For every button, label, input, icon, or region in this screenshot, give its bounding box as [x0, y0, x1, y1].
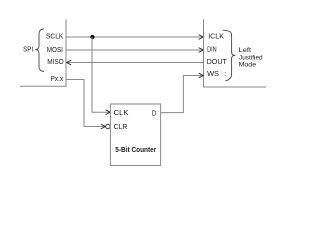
wire Px.x to counter CLR — [66, 80, 105, 127]
MCU block (left, partial: right edge + bottom edge) — [20, 20, 66, 87]
svg-text:Justified: Justified — [239, 54, 263, 61]
counter U1 block — [110, 104, 160, 165]
svg-text:Px.x: Px.x — [51, 74, 64, 83]
svg-text:D: D — [152, 109, 157, 118]
svg-text:ICLK: ICLK — [208, 32, 224, 41]
wire MOSI to DIN — [66, 49, 203, 51]
svg-text:Mode: Mode — [239, 61, 257, 68]
wire SCLK branch down to counter CLK — [92, 37, 110, 112]
junction dot on SCLK — [90, 35, 94, 39]
svg-text:WS: WS — [207, 69, 219, 78]
arrowhead into WS — [199, 73, 204, 78]
codec block (right, partial: left edge + bottom edge) — [204, 20, 267, 88]
svg-text:CLR: CLR — [114, 122, 128, 131]
active-low bubble on CLR — [106, 124, 110, 128]
svg-text:MISO: MISO — [47, 57, 64, 66]
arrowhead into DIN — [199, 48, 204, 53]
wire counter D output to WS — [161, 76, 203, 113]
wire DOUT to MISO — [67, 62, 204, 64]
svg-text:CLK: CLK — [114, 108, 129, 117]
svg-text:MOSI: MOSI — [47, 45, 63, 54]
svg-text:5-Bit Counter: 5-Bit Counter — [115, 147, 156, 154]
svg-text::: : — [224, 69, 226, 78]
svg-text:DIN: DIN — [207, 45, 217, 54]
svg-text:SCLK: SCLK — [46, 32, 63, 41]
SPI brace { — [35, 29, 44, 72]
wire SCLK to ICLK — [66, 36, 203, 38]
arrowhead into MISO (pointing left) — [67, 60, 72, 65]
svg-text:DOUT: DOUT — [207, 57, 228, 66]
brace } for mode note — [223, 30, 236, 81]
arrowhead into CLR — [101, 124, 106, 129]
arrowhead into CLK — [106, 110, 111, 115]
arrowhead into ICLK — [199, 35, 204, 40]
svg-text:SPI: SPI — [23, 45, 33, 54]
svg-text:Left: Left — [239, 47, 252, 54]
